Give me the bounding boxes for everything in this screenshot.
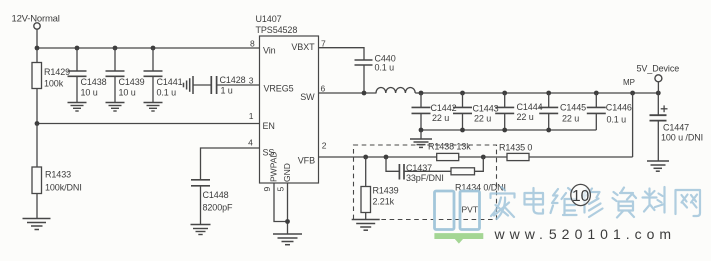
- char xiu: [583, 189, 603, 218]
- capacitor C1447 polarized: [657, 93, 659, 115]
- char dian: [525, 188, 544, 214]
- pin 8 Vin: [250, 38, 276, 55]
- wire Vin bus: [37, 47, 260, 49]
- pin 1 EN: [249, 111, 275, 131]
- resistor R1434: [451, 168, 475, 175]
- wire GND stub: [287, 183, 289, 234]
- svg-text:10 u: 10 u: [81, 88, 98, 98]
- wire PWPAD stub: [274, 183, 288, 222]
- svg-text:R1435 0: R1435 0: [499, 143, 532, 153]
- svg-text:8200pF: 8200pF: [203, 203, 234, 213]
- char jia: [491, 187, 515, 219]
- wire 5V output bus: [421, 92, 658, 94]
- svg-text:SW: SW: [300, 92, 315, 102]
- wire output ground bus: [421, 129, 596, 131]
- wire SS to C1448: [201, 148, 260, 179]
- svg-text:0.1 u: 0.1 u: [375, 63, 395, 73]
- ground below C1441: [144, 103, 163, 112]
- ground below IC: [273, 234, 302, 245]
- svg-text:9: 9: [262, 187, 272, 192]
- ground below C1438: [68, 103, 87, 112]
- pin 2 VFB: [298, 141, 327, 166]
- capacitor C1446: [595, 93, 597, 107]
- svg-text:3: 3: [249, 76, 254, 86]
- svg-text:C1437: C1437: [406, 163, 432, 173]
- capacitor C1444: [504, 93, 506, 107]
- ground below R1439: [352, 220, 380, 231]
- svg-text:100 u /DNI: 100 u /DNI: [661, 133, 703, 143]
- svg-text:52: 52: [549, 226, 575, 242]
- svg-text:C1448: C1448: [203, 190, 229, 200]
- node SW junction: [362, 91, 367, 96]
- ground below C1448: [191, 225, 211, 235]
- watermark www.520101.com: [494, 226, 677, 242]
- node EN junction: [35, 121, 40, 126]
- svg-text:0101.com: 0101.com: [575, 226, 676, 242]
- svg-text:22 u: 22 u: [474, 114, 491, 124]
- node 5V_Device label: [623, 64, 679, 88]
- svg-text:C1444: C1444: [517, 102, 543, 112]
- terminal 12V input: [34, 23, 40, 29]
- svg-text:C1438: C1438: [81, 77, 107, 87]
- svg-text:7: 7: [321, 38, 326, 48]
- watermark book icon pages: [435, 191, 480, 230]
- svg-text:VFB: VFB: [298, 156, 315, 166]
- svg-text:0.1 u: 0.1 u: [157, 88, 177, 98]
- ground sideways at C1428: [184, 76, 194, 94]
- ground below R1433: [23, 219, 51, 230]
- resistor R1433: [36, 124, 38, 168]
- svg-text:1: 1: [249, 111, 254, 121]
- svg-text:10: 10: [572, 188, 590, 205]
- resistor R1438: [437, 153, 459, 160]
- resistor R1439: [365, 157, 367, 187]
- svg-text:VBXT: VBXT: [291, 42, 315, 52]
- svg-text:C1442: C1442: [431, 103, 457, 113]
- dashed feedback box: [354, 145, 497, 220]
- svg-text:2.21k: 2.21k: [373, 197, 395, 207]
- wire SW to inductor: [319, 92, 377, 94]
- svg-text:22 u: 22 u: [517, 112, 534, 122]
- node 12V-Normal label: [12, 13, 60, 24]
- svg-text:C1445: C1445: [560, 103, 586, 113]
- svg-text:C1447: C1447: [663, 123, 689, 133]
- svg-text:C1446: C1446: [606, 103, 632, 113]
- pin 3 VREG5: [249, 76, 294, 94]
- char wei: [551, 188, 577, 215]
- svg-text:100k: 100k: [44, 79, 64, 89]
- svg-text:PWPAD: PWPAD: [269, 151, 279, 182]
- svg-text:22 u: 22 u: [562, 114, 579, 124]
- svg-text:TPS54528: TPS54528: [256, 25, 298, 35]
- watermark chinese text: [491, 187, 701, 219]
- svg-text:R1433: R1433: [45, 170, 71, 180]
- ground below C1447: [647, 161, 669, 171]
- svg-text:22 u: 22 u: [432, 113, 449, 123]
- watermark circled 10: [571, 184, 591, 205]
- wire VBXT to C440: [319, 48, 365, 60]
- svg-text:6: 6: [321, 83, 326, 93]
- svg-text:C1439: C1439: [119, 77, 145, 87]
- svg-text:Vin: Vin: [263, 45, 276, 55]
- op-amp U1407 IC body TPS54528: [260, 36, 319, 183]
- svg-text:GND: GND: [282, 163, 292, 182]
- capacitor C1439: [114, 48, 116, 71]
- junctions output bus: [419, 91, 661, 96]
- watermark book base green: [434, 233, 483, 244]
- svg-text:www.: www.: [494, 226, 548, 242]
- wire EN line: [37, 123, 260, 125]
- svg-text:EN: EN: [263, 121, 275, 131]
- svg-text:5: 5: [276, 187, 286, 192]
- svg-text:8: 8: [250, 38, 255, 48]
- capacitor C1448: [191, 180, 210, 186]
- svg-text:PVT: PVT: [462, 205, 479, 215]
- capacitor C440: [355, 60, 373, 65]
- capacitor C1441: [152, 48, 154, 71]
- svg-text:C1443: C1443: [473, 104, 499, 114]
- capacitor C1443: [462, 93, 464, 107]
- capacitor C1437: [386, 157, 399, 171]
- svg-text:R1439: R1439: [373, 186, 399, 196]
- terminal 5V_Device: [655, 75, 662, 82]
- svg-text:R1429: R1429: [44, 67, 70, 77]
- pin 9 PWPAD: [262, 151, 279, 191]
- svg-text:MP: MP: [623, 78, 635, 87]
- wire VFB line: [319, 156, 437, 158]
- char zi: [613, 188, 637, 218]
- capacitor C1438: [76, 48, 78, 71]
- wire feedback tap to 5V bus: [632, 93, 634, 157]
- char wang: [676, 190, 701, 216]
- node PVT label: [462, 205, 479, 215]
- capacitor C1445: [548, 93, 550, 107]
- svg-text:VREG5: VREG5: [264, 84, 294, 94]
- svg-text:1 u: 1 u: [221, 86, 233, 96]
- svg-text:33pF/DNI: 33pF/DNI: [406, 173, 444, 183]
- svg-text:100k/DNI: 100k/DNI: [45, 183, 82, 193]
- capacitor C1428: [193, 84, 211, 86]
- svg-text:5V_Device: 5V_Device: [637, 64, 680, 74]
- svg-text:R1438 13k: R1438 13k: [428, 142, 471, 152]
- inductor L: [376, 87, 415, 93]
- ground below C1439: [106, 103, 125, 112]
- char liao: [643, 187, 665, 213]
- junction input bus: [35, 46, 156, 51]
- resistor R1435: [507, 153, 529, 160]
- svg-text:C1428: C1428: [220, 75, 246, 85]
- svg-text:0.1 u: 0.1 u: [607, 115, 627, 125]
- svg-text:C1441: C1441: [157, 77, 183, 87]
- wire terminal to Vin bus: [36, 29, 38, 48]
- svg-text:4: 4: [248, 138, 253, 148]
- capacitor C1442: [420, 93, 422, 107]
- ground output bus: [420, 130, 422, 139]
- resistor R1429: [36, 48, 38, 63]
- svg-text:U1407: U1407: [256, 14, 282, 24]
- svg-text:10 u: 10 u: [119, 88, 136, 98]
- pin 6 SW: [300, 83, 325, 102]
- pin 4 SS: [248, 138, 274, 158]
- wire inductor to output bus: [415, 92, 421, 94]
- svg-text:2: 2: [322, 141, 327, 151]
- pin 7 VBXT: [291, 38, 326, 52]
- pin 5 GND: [276, 163, 293, 191]
